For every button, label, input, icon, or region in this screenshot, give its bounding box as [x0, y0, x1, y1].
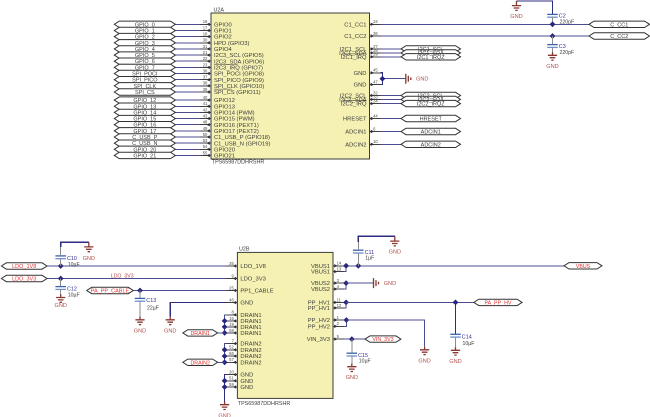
svg-text:GPIO1: GPIO1: [214, 29, 232, 35]
svg-text:54: 54: [203, 144, 208, 149]
svg-text:44: 44: [373, 113, 378, 118]
pin 17 (GPIO1): [200, 25, 232, 34]
wire C11 bottom lead: [357, 253, 359, 265]
wire C15 bottom lead: [351, 356, 353, 364]
svg-text:14: 14: [337, 261, 342, 266]
svg-text:GND: GND: [240, 373, 253, 379]
pin 10 (ADCIN2): [345, 139, 380, 148]
svg-text:16: 16: [203, 19, 208, 24]
wire net SPI_CS: [175, 91, 200, 93]
pin 13 (VBUS1): [311, 267, 344, 276]
junction PP_HV1: [343, 300, 349, 306]
svg-text:GND: GND: [240, 379, 253, 385]
net flag C_CC2: [589, 33, 650, 40]
svg-text:I2C3_SCL (GPIO5): I2C3_SCL (GPIO5): [214, 53, 264, 59]
net flag PA_PP_HV: [474, 299, 522, 306]
wire net C_CC2: [381, 35, 590, 37]
wire C14 top: [455, 302, 457, 334]
capacitor C12: [55, 286, 79, 298]
ground (VBUS2): [374, 278, 397, 288]
pin 48 (GPIO16 (PEXT1)): [200, 120, 259, 129]
pin 35 (LDO_1V8): [226, 261, 265, 270]
wire C12 bottom lead: [60, 289, 62, 294]
wire net I2C1_SDA: [381, 52, 402, 54]
svg-text:GND: GND: [389, 249, 401, 255]
wire net C_USB_P: [175, 136, 200, 138]
wire pin46 GND: [170, 303, 226, 317]
svg-text:C13: C13: [146, 298, 156, 304]
svg-text:GND: GND: [384, 281, 396, 287]
junction GND b: [222, 384, 228, 390]
svg-text:LDO_3V3: LDO_3V3: [111, 273, 134, 279]
wire net GPIO_3: [175, 42, 200, 44]
wire C3 top lead: [552, 36, 554, 45]
pin 3 (VBUS2): [311, 278, 344, 287]
svg-text:34: 34: [373, 99, 378, 104]
svg-text:PP1_CABLE: PP1_CABLE: [240, 289, 273, 295]
pin 55 (GPIO21): [200, 150, 235, 159]
ground (below C3): [546, 52, 558, 70]
svg-text:SPI_PICO (GPIO9): SPI_PICO (GPIO9): [214, 78, 264, 84]
pin 20 (GND): [226, 370, 253, 379]
svg-text:37: 37: [203, 75, 208, 80]
wire DRAIN1 pin19 stub: [225, 326, 227, 328]
ground (below C14): [449, 347, 461, 365]
pin 34 (I2C2_IRQ): [341, 99, 381, 108]
svg-text:35: 35: [229, 261, 234, 266]
wire net I2C2_IRQZ: [381, 103, 402, 105]
wire net LDO_1V8: [47, 265, 226, 267]
svg-text:41: 41: [203, 101, 208, 106]
svg-text:1µF: 1µF: [365, 256, 374, 262]
pin 47 (GND): [354, 80, 381, 89]
wire DRAIN2 flag: [218, 361, 225, 363]
wire VBUS1 pair link: [344, 266, 346, 272]
svg-text:I2C1_IRQ: I2C1_IRQ: [341, 55, 367, 61]
wire net GPIO_0: [175, 23, 200, 25]
svg-text:LDO_3V3: LDO_3V3: [240, 277, 265, 283]
net flag GPIO_14: [114, 109, 175, 116]
pin 2 (PP_HV2): [308, 321, 344, 330]
svg-text:HPD (GPIO3): HPD (GPIO3): [214, 41, 249, 47]
net flag SPI_CLK: [114, 83, 175, 90]
svg-text:GPIO2: GPIO2: [214, 35, 232, 41]
svg-text:VIN_3V3: VIN_3V3: [372, 337, 393, 343]
pin 26 (C1_CC2): [344, 31, 380, 40]
wire DRAIN2 bus: [225, 344, 227, 363]
svg-text:GPIO_21: GPIO_21: [133, 153, 156, 159]
svg-text:C1_CC2: C1_CC2: [344, 34, 366, 40]
svg-text:GPIO17 (PEXT2): GPIO17 (PEXT2): [214, 129, 259, 135]
svg-text:29: 29: [373, 52, 378, 57]
junction VBUS / C11: [355, 263, 361, 269]
pin 4 (VBUS2): [311, 284, 344, 293]
svg-text:36: 36: [203, 68, 208, 73]
svg-text:PA_PP_CABLE: PA_PP_CABLE: [91, 289, 130, 295]
wire net I2C2_SCL: [381, 95, 402, 97]
wire net GPIO_15: [175, 118, 200, 120]
svg-text:GPIO20: GPIO20: [214, 147, 235, 153]
svg-text:VBUS: VBUS: [576, 264, 591, 270]
svg-text:GND: GND: [418, 359, 430, 365]
svg-text:20: 20: [229, 370, 234, 375]
pin 11 (PP_HV1): [308, 297, 344, 306]
svg-text:GND: GND: [354, 83, 367, 89]
ground (PP_HV2): [418, 347, 430, 365]
wire GND pins 45-47 link: [381, 73, 383, 85]
wire GND pin59 stub: [225, 386, 227, 388]
pin 14 (VBUS1): [311, 261, 344, 270]
svg-text:39: 39: [203, 87, 208, 92]
pin 53 (C1_USB_N (GPIO19)): [200, 138, 270, 147]
wire net GPIO_5: [175, 54, 200, 56]
net flag I2C2_IRQZ: [401, 100, 461, 106]
svg-text:42: 42: [203, 107, 208, 112]
net flag SPI_CS: [114, 89, 175, 96]
net flag I2C1_SCL: [401, 46, 461, 52]
net flag GPIO_12: [114, 97, 175, 104]
svg-text:10µF: 10µF: [68, 292, 80, 298]
junction GND net: [380, 76, 386, 82]
pin 43 (GPIO15 (PWM)): [200, 113, 255, 122]
net flag I2C1_IRQZ: [401, 54, 461, 60]
pin 9 (LDO_3V3): [226, 273, 265, 282]
ground (below C12): [54, 294, 66, 309]
wire C14 bottom lead: [455, 337, 457, 347]
svg-text:HRESET: HRESET: [343, 117, 367, 123]
svg-text:PP_HV2: PP_HV2: [308, 318, 330, 324]
wire net I2C1_IRQZ: [381, 56, 402, 58]
pin 57 (DRAIN2): [226, 357, 261, 366]
pin 40 (GPIO12): [200, 95, 235, 104]
svg-text:GND: GND: [54, 303, 66, 309]
svg-text:13: 13: [337, 267, 342, 272]
capacitor C11: [353, 250, 374, 262]
capacitor C2: [547, 14, 574, 26]
svg-text:220pF: 220pF: [560, 50, 575, 56]
svg-text:TPS65987DDHRSHR: TPS65987DDHRSHR: [212, 159, 265, 165]
junction C_CC2 / C3: [550, 33, 556, 39]
pin 12 (PP_HV1): [308, 303, 344, 312]
wire DRAIN1 pin15 stub: [225, 320, 227, 322]
svg-text:38: 38: [203, 81, 208, 86]
svg-text:46: 46: [229, 298, 234, 303]
wire net GPIO_20: [175, 148, 200, 150]
wire PP_HV2 to GND: [346, 320, 424, 347]
svg-text:LDO_1V8: LDO_1V8: [240, 264, 265, 270]
pin 19 (DRAIN1): [226, 322, 261, 331]
ground (below C13): [134, 317, 146, 335]
pin 15 (DRAIN1): [226, 316, 261, 325]
wire net SPI_POCI: [175, 73, 200, 75]
svg-text:10µF: 10µF: [463, 341, 475, 347]
pin 31 (GPIO4): [200, 44, 232, 53]
wire net I2C2_SDA: [381, 98, 402, 100]
net flag DRAIN2: [183, 359, 218, 366]
pin 18 (GPIO2): [200, 32, 232, 41]
wire net ADCIN2: [381, 143, 402, 145]
pin 28 (I2C1_SDA): [339, 48, 380, 57]
svg-text:12: 12: [337, 303, 342, 308]
svg-text:11: 11: [337, 297, 342, 302]
svg-text:PA_PP_HV: PA_PP_HV: [484, 300, 511, 306]
wire net GPIO_7: [175, 66, 200, 68]
svg-text:24: 24: [373, 19, 378, 24]
labels for flag group: [417, 47, 445, 61]
svg-text:GND: GND: [240, 385, 253, 391]
wire VBUS2 pair link: [344, 283, 346, 289]
svg-text:ADCIN2: ADCIN2: [421, 142, 441, 148]
net flag GPIO_16: [114, 122, 175, 129]
pin 58 (DRAIN1): [226, 328, 261, 337]
svg-text:31: 31: [203, 44, 208, 49]
net flag GPIO_17: [114, 128, 175, 135]
net flag VBUS: [564, 263, 602, 270]
pin 49 (GPIO17 (PEXT2)): [200, 126, 259, 135]
pin 21 (I2C3_SCL (GPIO5)): [200, 50, 264, 59]
svg-text:10: 10: [373, 139, 378, 144]
net flag I2C1_SDA: [401, 50, 461, 56]
wire PP_HV1 pair link: [344, 302, 346, 308]
pin 8 (DRAIN1): [226, 310, 261, 319]
wire net GPIO_21: [175, 154, 200, 156]
net flag GPIO_3: [114, 40, 175, 47]
svg-text:SPI_POCI (GPIO8): SPI_POCI (GPIO8): [214, 72, 264, 78]
wire C13 bottom lead: [139, 301, 141, 316]
svg-text:GND: GND: [83, 256, 95, 262]
junction VBUS2: [343, 280, 349, 286]
svg-text:GPIO21: GPIO21: [214, 154, 235, 160]
ground (below U2B): [218, 402, 230, 417]
svg-text:59: 59: [229, 382, 234, 387]
junction DRAIN1 c: [222, 330, 228, 336]
svg-text:GND: GND: [354, 71, 367, 77]
svg-text:40: 40: [203, 95, 208, 100]
svg-text:50: 50: [203, 132, 208, 137]
wire net I2C1_SCL: [381, 48, 402, 50]
svg-text:45: 45: [373, 68, 378, 73]
svg-text:U2B: U2B: [239, 247, 250, 253]
net flag I2C2_SCL: [401, 92, 461, 98]
svg-text:GPIO16 (PEXT1): GPIO16 (PEXT1): [214, 123, 259, 129]
svg-text:GPIO0: GPIO0: [214, 22, 232, 28]
pin 24 (C1_CC1): [344, 19, 380, 28]
wire net GPIO_14: [175, 111, 200, 113]
svg-text:VBUS2: VBUS2: [311, 287, 330, 293]
junction DRAIN1 b: [222, 324, 228, 330]
wire DRAIN2 pin52 stub: [225, 349, 227, 351]
svg-text:SPI_CS: SPI_CS: [135, 90, 155, 96]
pin 23 (I2C3_IRQ (GPIO7)): [200, 62, 263, 71]
pin 56 (DRAIN2): [226, 351, 261, 360]
svg-text:49: 49: [203, 126, 208, 131]
capacitor C13: [135, 298, 159, 311]
svg-text:GND: GND: [134, 329, 146, 335]
svg-text:22: 22: [203, 56, 208, 61]
svg-text:I2C2_IRQ: I2C2_IRQ: [341, 102, 367, 108]
svg-text:DRAIN2: DRAIN2: [240, 348, 261, 354]
wire C11 top lead: [357, 242, 359, 251]
svg-text:U2A: U2A: [214, 7, 225, 13]
ground (U2B pin 46): [164, 317, 176, 335]
svg-text:C1_USB_P (GPIO18): C1_USB_P (GPIO18): [214, 135, 270, 141]
junction DRAIN2 a: [222, 347, 228, 353]
junction VBUS1: [343, 263, 349, 269]
junction DRAIN1 a: [222, 318, 228, 324]
net flag VIN_3V3: [365, 336, 401, 343]
svg-text:C_CC2: C_CC2: [610, 34, 628, 40]
svg-text:GPIO13: GPIO13: [214, 104, 235, 110]
wire net GPIO_4: [175, 48, 200, 50]
wire GND pin51 stub: [225, 380, 227, 382]
svg-text:C2: C2: [559, 14, 566, 20]
wire DRAIN1 flag: [218, 332, 225, 334]
wire net PA_PP_CABLE: [133, 290, 226, 292]
svg-text:GPIO12: GPIO12: [214, 98, 235, 104]
capacitor C14: [450, 334, 474, 347]
pin 45 (GND): [354, 68, 381, 77]
svg-text:21: 21: [203, 50, 208, 55]
net flag GPIO_2: [114, 33, 175, 40]
wire net GPIO_6: [175, 60, 200, 62]
svg-text:47: 47: [373, 80, 378, 85]
wire C15 top lead: [351, 339, 353, 353]
svg-text:GND: GND: [240, 301, 253, 307]
svg-text:C1_CC1: C1_CC1: [344, 22, 366, 28]
svg-text:SPI_CS (GPIO11): SPI_CS (GPIO11): [214, 90, 261, 96]
junction GND a: [222, 378, 228, 384]
net flag C_CC1: [589, 21, 650, 28]
ground (top, above C2): [510, 1, 522, 20]
pin 25 (PP1_CABLE): [226, 285, 273, 294]
svg-text:GND: GND: [510, 14, 522, 20]
junction LDO_1V8 / C10: [58, 263, 64, 269]
wire DRAIN1 bus: [225, 315, 227, 333]
pin 59 (GND): [226, 382, 253, 391]
pin 39 (SPI_CS (GPIO11)): [200, 87, 261, 96]
pin 29 (I2C1_IRQ): [341, 52, 381, 61]
net flag GPIO_21: [114, 152, 175, 159]
svg-text:LDO_1V8: LDO_1V8: [12, 264, 36, 270]
svg-text:10µF: 10µF: [359, 358, 371, 364]
net flag LDO_3V3: [1, 275, 47, 282]
pin 30 (HPD (GPIO3)): [200, 38, 249, 47]
wire net LDO_3V3: [47, 278, 226, 280]
svg-text:GND: GND: [546, 64, 558, 70]
net flag ADCIN2: [401, 141, 461, 148]
junction DRAIN2 b: [222, 353, 228, 359]
svg-text:ADCIN1: ADCIN1: [421, 130, 441, 136]
pin 22 (I2C3_SDA (GPIO6)): [200, 56, 264, 65]
wire VBUS2 to GND: [346, 282, 373, 284]
wire DRAIN2 pin56 stub: [225, 355, 227, 357]
svg-text:DRAIN2: DRAIN2: [240, 360, 261, 366]
pin 38 (SPI_CLK (GPIO10)): [200, 81, 264, 90]
svg-text:26: 26: [373, 31, 378, 36]
net flag C_USB_N: [114, 140, 175, 147]
svg-text:18: 18: [203, 32, 208, 37]
svg-text:C3: C3: [559, 44, 566, 50]
wire C13 top lead: [139, 291, 141, 299]
pin 42 (GPIO14 (PWM)): [200, 107, 255, 116]
svg-text:GPIO15 (PWM): GPIO15 (PWM): [214, 117, 255, 123]
svg-text:ADCIN1: ADCIN1: [345, 130, 366, 136]
wire net C_USB_N: [175, 142, 200, 144]
net flag GPIO_20: [114, 146, 175, 153]
net flag DRAIN1: [183, 330, 218, 337]
svg-text:19: 19: [229, 322, 234, 327]
svg-text:DRAIN1: DRAIN1: [240, 331, 261, 337]
svg-text:DRAIN2: DRAIN2: [240, 354, 261, 360]
svg-text:15: 15: [229, 316, 234, 321]
svg-text:HRESET: HRESET: [420, 117, 443, 123]
net flag SPI_POCI: [114, 70, 175, 77]
net flag LDO_1V8: [1, 263, 47, 270]
pin 54 (GPIO20): [200, 144, 235, 153]
wire net GPIO_13: [175, 105, 200, 107]
svg-text:GPIO4: GPIO4: [214, 47, 232, 53]
wire C12 top lead: [60, 279, 62, 287]
pin 36 (SPI_POCI (GPIO8)): [200, 68, 264, 77]
svg-text:53: 53: [203, 138, 208, 143]
svg-text:I2C2_IRQZ: I2C2_IRQZ: [417, 102, 445, 108]
pin 1 (PP_HV2): [308, 315, 344, 324]
svg-text:C_CC1: C_CC1: [610, 22, 628, 28]
pin 6 (ADCIN1): [345, 126, 380, 135]
capacitor C15: [347, 353, 371, 364]
junction PP_HV2: [344, 317, 350, 323]
svg-text:48: 48: [203, 120, 208, 125]
pin 46 (GND): [226, 298, 253, 307]
net flag GPIO_5: [114, 52, 175, 59]
net flag SPI_PICO: [114, 77, 175, 84]
pin 5 (VIN_3V3): [307, 334, 344, 343]
wire net SPI_CLK: [175, 85, 200, 87]
pin 32 (I2C2_SCL): [340, 90, 381, 99]
svg-text:I2C1_IRQZ: I2C1_IRQZ: [417, 55, 445, 61]
net flag ADCIN1: [401, 128, 461, 135]
svg-text:22µF: 22µF: [147, 305, 159, 311]
wire PP_HV2 pair link: [344, 320, 346, 326]
pin 50 (C1_USB_P (GPIO18)): [200, 132, 270, 141]
svg-text:GND: GND: [346, 375, 358, 381]
net flag GPIO_6: [114, 58, 175, 65]
wire net HRESET: [381, 118, 402, 120]
ground (below C15): [346, 364, 358, 382]
wire C3 bottom lead: [552, 47, 554, 55]
pin 44 (HRESET): [343, 113, 381, 122]
svg-text:GND: GND: [449, 359, 461, 365]
net flag C_USB_P: [114, 134, 175, 141]
wire C10 bottom lead: [60, 259, 62, 266]
capacitor C10: [55, 256, 79, 268]
svg-text:PP_HV1: PP_HV1: [308, 306, 330, 312]
svg-text:43: 43: [203, 113, 208, 118]
wire net SPI_PICO: [175, 79, 200, 81]
junction C_CC1 / C2: [550, 21, 556, 27]
pin 41 (GPIO13): [200, 101, 235, 110]
svg-text:25: 25: [229, 285, 234, 290]
junction LDO_3V3 / C12: [58, 276, 64, 282]
net flag GPIO_4: [114, 46, 175, 53]
svg-text:17: 17: [203, 25, 208, 30]
svg-text:C1_USB_N (GPIO19): C1_USB_N (GPIO19): [214, 141, 270, 147]
svg-text:GND: GND: [164, 329, 176, 335]
svg-text:GPIO14 (PWM): GPIO14 (PWM): [214, 111, 255, 117]
pin 37 (SPI_PICO (GPIO9)): [200, 75, 264, 84]
wire C2 bottom lead: [552, 17, 554, 24]
wire net C_CC1: [381, 23, 590, 25]
